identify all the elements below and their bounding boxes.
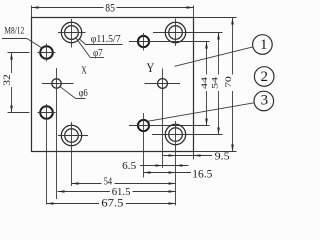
svg-text:2: 2 [260,69,268,85]
dimension 54 right [217,33,220,135]
svg-text:61.5: 61.5 [112,186,131,198]
svg-text:φ11.5/7: φ11.5/7 [91,34,121,45]
hole Y [145,69,181,169]
small port hole bottom-middle [129,113,210,178]
plate outline [32,18,194,152]
svg-text:44: 44 [199,76,209,89]
svg-text:70: 70 [223,76,233,88]
svg-text:Y: Y [147,60,155,75]
svg-text:16.5: 16.5 [192,168,212,180]
balloon 2 [254,67,274,87]
dimension 85 top [32,6,194,18]
dimension 67.5 bottom [47,202,176,205]
svg-text:54: 54 [209,76,219,89]
dimension 16.5 bottom [144,171,192,174]
balloon 1 [175,35,273,67]
leader φ6 [60,87,85,99]
dimension 6.5 bottom [140,164,189,167]
leader φ11.5/7 [79,39,122,45]
dimension 44 right [205,42,208,126]
svg-text:1: 1 [260,37,268,53]
dimension 61.5 bottom [58,190,176,193]
svg-text:φ7: φ7 [93,48,103,59]
svg-text:M8/12: M8/12 [4,26,24,36]
svg-text:85: 85 [105,3,115,15]
port hole top-right counterbore [153,19,223,47]
svg-text:X: X [81,66,87,77]
dimension 54 bottom [72,182,176,185]
port hole bottom-right counterbore [152,121,223,206]
svg-text:6.5: 6.5 [122,160,137,172]
svg-text:9.5: 9.5 [215,150,231,162]
M8/12 thread hole bottom-left [38,104,56,205]
leader M8/12 [2,39,42,48]
dimension 32 left [8,53,30,113]
balloon 3 [148,91,274,121]
svg-text:3: 3 [261,93,269,109]
hole X φ6 [42,68,74,199]
small port hole top-middle [129,33,210,51]
port hole bottom-left counterbore [58,122,88,186]
svg-text:32: 32 [2,74,12,86]
leader φ7 [76,38,104,57]
dimension 9.5 bottom-right [163,152,213,160]
svg-text:67.5: 67.5 [101,197,123,209]
svg-text:φ6: φ6 [79,88,88,99]
port hole top-left counterbore φ11.5/7 [58,19,86,48]
M8/12 thread hole top-left [38,44,56,62]
dimension 70 right [194,18,237,152]
